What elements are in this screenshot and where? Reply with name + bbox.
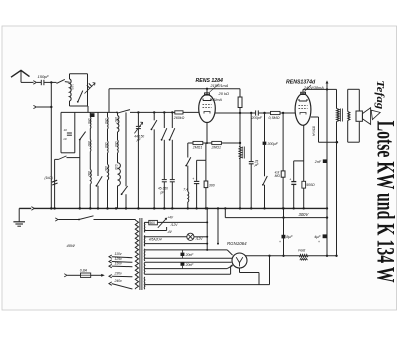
- mains plug b: [64, 274, 67, 277]
- svg-text:40W: 40W: [67, 243, 76, 248]
- wire cap branch: [196, 160, 198, 181]
- wire rect output: [245, 255, 299, 257]
- svg-text:+: +: [289, 178, 291, 182]
- resistor 260kΩ (grid stopper): [173, 111, 185, 120]
- node 300V x283: [282, 216, 284, 218]
- wire pot loop top: [145, 221, 149, 223]
- capacitor 2nF: [314, 159, 327, 164]
- svg-text:230v: 230v: [114, 272, 123, 276]
- wire heater s4 bottom: [145, 266, 233, 269]
- node g4: [171, 111, 173, 113]
- output transformer T1 primary: [337, 89, 340, 255]
- resistor 300Ω (cathode): [204, 160, 215, 187]
- wire ground bus: [19, 207, 327, 209]
- svg-text:+4V: +4V: [167, 215, 174, 219]
- wire cathode row: [188, 142, 240, 144]
- power transformer core: [140, 218, 142, 290]
- capacitor block at x92: [90, 113, 94, 117]
- node n283: [282, 112, 284, 114]
- mains plug a: [55, 218, 58, 221]
- T2 secondary s2: [143, 235, 146, 246]
- arrow up x327: [326, 80, 329, 89]
- switch S11 column x172: [169, 112, 175, 179]
- T2 secondary s5: [143, 277, 146, 289]
- node n264: [263, 112, 265, 114]
- switch S4 (wave change): [185, 143, 191, 167]
- wire lamp loop right: [194, 236, 207, 238]
- choke L2: [239, 147, 245, 159]
- lamp pilot: [187, 233, 194, 240]
- node n240: [239, 112, 241, 114]
- coil column x90 sec a: [87, 112, 91, 128]
- capacitor (1kΩ): [45, 176, 58, 185]
- wire L3 to bus: [187, 202, 189, 208]
- wire lamp loop bottom: [145, 243, 207, 245]
- svg-text:150v: 150v: [115, 262, 123, 266]
- coil column x107 sec c: [104, 153, 108, 180]
- wire column x54 (1k): [53, 159, 55, 209]
- wire to tube1 top cap: [206, 89, 208, 94]
- tube U3 filament: [236, 257, 243, 266]
- wire feld riser: [268, 255, 270, 285]
- wire tube2 anode: [303, 89, 337, 92]
- resistor 500Ω (cathode U2): [302, 181, 315, 188]
- wire 300ohm to bus: [205, 188, 207, 209]
- node x327 feld: [326, 255, 328, 257]
- wire heater s3 bottom: [145, 257, 232, 259]
- wire x117 to bus: [115, 186, 118, 210]
- tube U1 grid2: [203, 107, 212, 109]
- svg-text:000: 000: [104, 166, 108, 172]
- label 4/5A2U4: [149, 237, 162, 241]
- node x327 300V: [326, 216, 328, 218]
- voltage tap 230v: [109, 272, 132, 278]
- title Lotse KW und K 134 W (rotated): [372, 121, 399, 283]
- tube U2 top cap: [301, 92, 306, 94]
- speaker frame left + secondary: [348, 89, 350, 142]
- resistor 4,8MΩ: [275, 113, 285, 208]
- coil box 2 right: [74, 112, 76, 152]
- svg-text:+: +: [318, 240, 320, 244]
- label 40W: [67, 243, 76, 248]
- capacitor 20nF b: [181, 262, 195, 268]
- svg-text:+: +: [192, 177, 194, 181]
- wire cathode branch: [197, 143, 206, 160]
- capacitor 10nF (box2): [64, 128, 72, 141]
- svg-text:nF: nF: [64, 137, 68, 141]
- tube U1 grid: [203, 104, 212, 106]
- svg-text:Tefag: Tefag: [374, 80, 386, 110]
- wire S6 to bus: [79, 140, 81, 210]
- tube U2 cathode: [300, 113, 306, 115]
- wire 300V: [225, 212, 327, 217]
- capacitor 4µF: [314, 234, 327, 244]
- svg-text:4µF: 4µF: [314, 235, 321, 239]
- switch S6: [79, 132, 86, 141]
- svg-text:20 kΩ: 20 kΩ: [218, 91, 230, 96]
- switch S12 (mains): [78, 216, 93, 221]
- wire varcap column: [137, 112, 139, 209]
- label /12V a: [170, 223, 178, 227]
- svg-text:2MΩ1: 2MΩ1: [192, 145, 203, 149]
- svg-text:000: 000: [114, 142, 118, 148]
- svg-text:125v: 125v: [115, 257, 123, 261]
- wire tube2 cathode drop: [303, 125, 305, 208]
- coil column x117 sec c: [114, 153, 120, 186]
- capacitor 200pF (coupling): [251, 110, 263, 120]
- antenna: [11, 70, 30, 82]
- T2 secondary s1: [143, 222, 145, 232]
- svg-text:8µF: 8µF: [286, 235, 293, 239]
- tube U2 anode plate: [299, 99, 307, 101]
- label 20kΩ: [218, 91, 230, 96]
- wire left column x51: [50, 82, 52, 209]
- wire box bottom to grid line: [87, 106, 89, 112]
- coil column x107 sec a: [104, 112, 108, 129]
- capacitor trim b: [170, 180, 175, 210]
- label RGN1064: [227, 241, 247, 246]
- power transformer T2 primary: [135, 220, 138, 290]
- wire anode bus tube1: [109, 88, 240, 90]
- label +4V: [167, 215, 174, 219]
- wire fuse to tap: [91, 274, 105, 277]
- wire antenna to plug: [21, 81, 34, 83]
- speaker frame top: [348, 88, 360, 90]
- wire heater s3 top: [145, 250, 233, 255]
- svg-text:050: 050: [87, 141, 91, 147]
- coil column x90 sec b: [87, 129, 91, 152]
- antenna plug contact: [33, 81, 36, 85]
- resistor 0,5MΩ: [269, 111, 281, 120]
- T2 secondary s4: [143, 262, 146, 274]
- wire 50uF to bus: [293, 184, 295, 208]
- wire grid line to tube1: [61, 111, 199, 113]
- svg-text:(1kΩ): (1kΩ): [45, 176, 53, 180]
- capacitor 10µF cathode: [192, 177, 199, 183]
- bus nodes: [50, 207, 305, 209]
- wire mains a: [58, 219, 79, 221]
- node g2: [153, 111, 155, 113]
- resistor 20kΩ (screen): [238, 97, 242, 108]
- svg-text:65mA: 65mA: [312, 126, 316, 136]
- wire S4 down: [187, 166, 189, 192]
- resistor 2MΩ b: [211, 141, 222, 149]
- input coil box right wire: [87, 74, 89, 106]
- svg-text:RGN1064: RGN1064: [227, 241, 247, 246]
- switch S8 column x126: [121, 112, 128, 209]
- wire x90 to bus: [89, 184, 91, 209]
- pointer RENS1284: [210, 84, 220, 92]
- pointer RENS1374d: [305, 85, 312, 91]
- svg-text:20nF: 20nF: [185, 263, 195, 267]
- tube U2 RENS1374d: [295, 94, 311, 126]
- node T1 y142: [336, 141, 338, 143]
- wire row y159: [55, 156, 80, 160]
- label 215V/1mA: [210, 84, 229, 88]
- svg-text:010: 010: [114, 164, 118, 170]
- label 45-150pF: [158, 187, 168, 195]
- switch S5: [262, 176, 267, 208]
- wire y142: [319, 141, 339, 143]
- wire lamp loop top: [145, 236, 187, 238]
- coil column x107 sec b: [104, 129, 108, 153]
- svg-text:7,4: 7,4: [183, 188, 188, 192]
- T2 secondary s3: [143, 249, 146, 261]
- output transformer core: [340, 109, 342, 122]
- svg-text:Lotse KW und K 134 W: Lotse KW und K 134 W: [372, 121, 399, 283]
- svg-text:2nF: 2nF: [314, 160, 322, 164]
- wire rect plate b: [145, 284, 270, 286]
- svg-text:0,5MΩ: 0,5MΩ: [269, 116, 280, 120]
- svg-text:240v: 240v: [114, 279, 123, 283]
- switch S2 (inside coil box): [77, 91, 83, 103]
- voltage tap 125v: [109, 257, 132, 263]
- svg-text:-4V: -4V: [167, 230, 173, 234]
- node g3: [163, 111, 165, 113]
- node x327 bus: [326, 207, 328, 209]
- svg-text:Feld: Feld: [298, 248, 306, 252]
- speaker frame bottom: [348, 141, 360, 143]
- speaker frame right: [358, 89, 360, 142]
- svg-text:200pF: 200pF: [251, 116, 263, 120]
- svg-text:050: 050: [104, 119, 108, 125]
- wire anode column x327: [326, 89, 328, 255]
- coil column x117 sec a: [114, 112, 119, 132]
- svg-text:+: +: [279, 240, 281, 244]
- svg-text:300V: 300V: [299, 212, 310, 217]
- wire x218: [217, 207, 219, 244]
- capacitor trim a: [162, 180, 167, 210]
- wire choke to bus: [239, 143, 241, 208]
- voltage tap 150v: [109, 262, 132, 268]
- variable capacitor 44-150pF: [134, 122, 144, 142]
- svg-text:150pF: 150pF: [38, 74, 50, 79]
- wire mains b: [67, 274, 80, 276]
- svg-text:050: 050: [87, 119, 91, 125]
- label 7,4: [183, 188, 188, 192]
- svg-text:4/5A2U4: 4/5A2U4: [149, 237, 162, 241]
- coil box 2 left: [60, 112, 62, 152]
- wire tube1 cathode drop: [206, 123, 208, 143]
- label RENS 1284: [196, 78, 224, 84]
- svg-text:260kΩ: 260kΩ: [173, 116, 185, 120]
- svg-text:300: 300: [209, 184, 215, 188]
- coil column x90 sec c: [87, 152, 91, 185]
- svg-text:100: 100: [70, 84, 74, 90]
- svg-text:20nF: 20nF: [185, 253, 195, 257]
- variable capacitor C1 (tuning): [85, 83, 96, 94]
- coil L1 (input, left side): [70, 74, 72, 106]
- wire heater s4 top: [145, 261, 232, 263]
- node anode tube1: [206, 88, 208, 90]
- svg-text:105/mA: 105/mA: [210, 98, 223, 102]
- potentiometer arrow: [158, 218, 167, 228]
- terminal earth plug: [33, 105, 51, 108]
- label RENS1374d: [286, 80, 316, 86]
- coil L1 value 100 (rotated): [70, 84, 74, 90]
- wire bus to 300V: [224, 208, 226, 217]
- switch S1 (antenna): [57, 79, 70, 83]
- capacitor 50µF (cathode): [289, 178, 296, 185]
- svg-text:/12V: /12V: [170, 223, 178, 227]
- switch S9 column x154: [151, 112, 157, 209]
- node n251: [250, 112, 252, 114]
- coil L3 (7,4): [188, 192, 189, 203]
- tube U3 RGN1064: [232, 253, 247, 268]
- svg-text:500: 500: [150, 221, 156, 225]
- title Tefag (rotated): [374, 80, 386, 110]
- svg-text:300µF: 300µF: [267, 142, 278, 146]
- svg-text:MΩ: MΩ: [275, 174, 281, 178]
- switch S10 column x163: [161, 112, 167, 179]
- wire tube1 to tube2: [215, 112, 295, 114]
- wire pot loop bottom: [145, 227, 167, 231]
- tube U2 grid2: [299, 108, 308, 110]
- capacitor 300µF column: [263, 113, 279, 176]
- wire corner x109: [108, 89, 110, 113]
- wire cap to bus: [196, 184, 198, 209]
- svg-text:500Ω: 500Ω: [306, 183, 315, 187]
- Tefag logo triangle: [371, 110, 380, 119]
- field coil Feld: [298, 248, 308, 260]
- svg-text:0,8A: 0,8A: [80, 269, 88, 273]
- label /12V b: [195, 237, 203, 241]
- wire heater centre tap: [206, 207, 208, 251]
- svg-text:110v: 110v: [115, 252, 122, 256]
- wire rect cathode jog: [240, 268, 260, 285]
- svg-text:10: 10: [64, 128, 68, 132]
- node g1: [137, 111, 139, 113]
- voltage tap 240v: [109, 279, 132, 289]
- wire screen drop: [239, 89, 241, 97]
- tube U1 anode plate: [203, 99, 211, 101]
- wire x107 to bus: [106, 180, 108, 210]
- wire feld to speaker: [308, 255, 338, 257]
- voltage tap 110v: [109, 252, 132, 258]
- switch S3 (band select on grid line): [116, 110, 130, 114]
- tube U1 cathode: [204, 112, 210, 114]
- capacitor 25µF column: [249, 113, 260, 208]
- label 105/mA: [210, 98, 223, 102]
- ground: [13, 208, 25, 226]
- input coil box top wire: [70, 73, 88, 75]
- wire plug to capacitor: [37, 81, 41, 83]
- switch S7 column x98: [96, 112, 103, 209]
- svg-text:000: 000: [87, 171, 91, 177]
- svg-text:/12V: /12V: [195, 237, 203, 241]
- tube U1 RENS1284: [199, 95, 216, 123]
- capacitor 150pF: [38, 74, 50, 85]
- wire tube2 right stub: [311, 117, 319, 142]
- tube U1 top cap: [205, 93, 210, 95]
- node anode2 x327: [326, 88, 328, 90]
- wire capacitor to switch: [44, 81, 56, 83]
- fuse 0,8A: [80, 269, 91, 278]
- capacitor 8µF column: [279, 207, 293, 257]
- label -4V: [167, 230, 173, 234]
- resistor 500 (hum pot): [149, 220, 158, 225]
- svg-text:050: 050: [114, 117, 118, 123]
- resistor 2MΩ a: [192, 141, 203, 149]
- bus plug contact: [31, 207, 34, 211]
- svg-text:RENS1374d: RENS1374d: [286, 80, 316, 86]
- capacitor 20nF a: [181, 250, 195, 258]
- svg-text:000: 000: [104, 143, 108, 149]
- node n240b: [239, 142, 241, 144]
- coil column x117 sec b: [114, 132, 118, 153]
- speaker LS1: [356, 108, 371, 125]
- label 65mA (rotated): [312, 126, 316, 136]
- coil box 2 bottom: [61, 152, 75, 154]
- tube U2 grid: [299, 105, 308, 107]
- wire cathode jog: [294, 161, 304, 181]
- wire mains a2: [94, 219, 136, 221]
- wire pot loop right: [157, 221, 207, 223]
- svg-text:2MΩ1: 2MΩ1: [211, 145, 222, 149]
- input coil box bottom wire: [70, 105, 88, 107]
- svg-text:215V/1mA: 215V/1mA: [210, 84, 229, 88]
- wire rect plate a: [145, 265, 233, 274]
- wire screen to grid line: [239, 108, 241, 144]
- label 240V/38mA: [303, 86, 324, 90]
